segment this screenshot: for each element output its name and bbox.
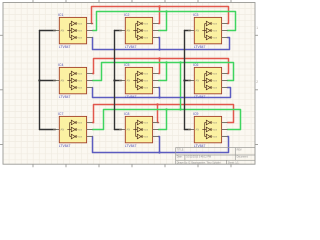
junction red row1	[158, 5, 160, 7]
optocoupler IC1	[53, 13, 93, 49]
wire green net row3 bus (mid pins of IC7-IC9)	[93, 110, 241, 130]
svg-text:1: 1	[256, 26, 258, 30]
optocoupler IC6	[188, 63, 228, 99]
wire blue net row1 riser from IC2 bottom pin	[159, 38, 160, 50]
wire red net row3 drop to IC8 top pin	[158, 105, 159, 123]
junction blue row2	[158, 96, 160, 98]
wire green link row2 to row3	[180, 63, 182, 110]
svg-text:AN: AN	[61, 128, 65, 132]
junction input feed column 1 row2	[38, 79, 40, 81]
svg-text:AN: AN	[127, 29, 131, 33]
optocoupler IC3	[188, 13, 228, 49]
optocoupler IC2	[119, 13, 159, 49]
wire red net row1 drop to IC2 top pin	[159, 7, 160, 24]
wire green net row1 bus (mid pins of IC1-IC3)	[93, 12, 236, 31]
svg-text:IC7: IC7	[58, 112, 63, 116]
wire green net row2 drop to IC5 mid pin	[159, 63, 167, 81]
svg-text:AN: AN	[61, 29, 65, 33]
junction red row3	[156, 103, 158, 105]
svg-text:LTV847: LTV847	[194, 45, 206, 49]
junction green row1	[165, 10, 167, 12]
svg-text:IC5: IC5	[124, 63, 129, 67]
wire input feed column 2	[115, 30, 122, 32]
wire red net row3 bus (tops of IC7-IC9)	[94, 105, 234, 123]
wire input feed column 1	[40, 30, 56, 32]
junction blue row3	[158, 151, 160, 153]
wire blue net row1 bus (bottom pins of IC1-IC3)	[93, 38, 230, 50]
svg-text:Date:: Date:	[177, 156, 183, 159]
wire green net row1 drop to IC2 mid pin	[159, 12, 167, 31]
wire red net row1 bus (tops of IC1-IC3)	[92, 7, 229, 24]
junction green row3	[165, 108, 167, 110]
junction red row2	[158, 57, 160, 59]
junction input feed column 3 row2	[183, 79, 185, 81]
junction green link top	[179, 61, 181, 63]
svg-text:AN: AN	[127, 79, 131, 83]
title block	[176, 148, 255, 165]
svg-text:IC9: IC9	[193, 112, 198, 116]
svg-text:LTV847: LTV847	[59, 45, 71, 49]
wire blue net row2 bus (bottom pins of IC4-IC6)	[93, 88, 231, 98]
svg-text:LTV847: LTV847	[59, 95, 71, 99]
svg-text:IC2: IC2	[124, 13, 129, 17]
svg-text:LTV847: LTV847	[59, 144, 71, 148]
svg-text:2: 2	[256, 80, 258, 84]
svg-text:TITLE:: TITLE:	[177, 149, 185, 152]
svg-text:Document:: Document:	[237, 156, 249, 159]
svg-text:Sheet: 1/1: Sheet: 1/1	[228, 161, 240, 164]
wire red net row2 bus (tops of IC4-IC6)	[94, 59, 229, 74]
svg-text:Drawn By: E. Baumgartner, Timo: Drawn By: E. Baumgartner, Timo Schäfer	[177, 161, 221, 164]
svg-text:IC3: IC3	[193, 13, 198, 17]
svg-text:LTV847: LTV847	[125, 45, 137, 49]
svg-text:AN: AN	[61, 79, 65, 83]
wire blue net row2 riser from IC5 bottom pin	[159, 88, 160, 98]
junction green link bottom	[179, 108, 181, 110]
junction input feed column 2 row2	[113, 79, 115, 81]
svg-text:REV:: REV:	[237, 149, 243, 152]
svg-text:AN: AN	[196, 29, 200, 33]
wire red stub IC7 top pin	[93, 122, 94, 124]
svg-text:IC6: IC6	[193, 63, 198, 67]
junction green row2	[165, 61, 167, 63]
svg-text:LTV847: LTV847	[125, 144, 137, 148]
optocoupler IC9	[188, 112, 228, 148]
wire blue net row3 bus (bottom pins of IC7-IC9)	[93, 137, 229, 153]
svg-text:IC1: IC1	[58, 13, 63, 17]
svg-text:AN: AN	[196, 128, 200, 132]
optocoupler IC4	[53, 63, 93, 99]
optocoupler IC7	[53, 112, 93, 148]
svg-text:AN: AN	[196, 79, 200, 83]
svg-text:IC8: IC8	[124, 112, 129, 116]
wire red stub IC1 top pin	[92, 23, 93, 25]
optocoupler IC8	[119, 112, 159, 148]
svg-text:LTV847: LTV847	[125, 95, 137, 99]
wire green net row3 drop to IC8 mid pin	[159, 110, 167, 130]
wire blue net row3 riser from IC8 bottom pin	[159, 137, 160, 153]
svg-text:AN: AN	[127, 128, 131, 132]
wire input feed column 3	[185, 30, 191, 32]
wire red net row2 drop to IC5 top pin	[159, 59, 160, 74]
svg-text:LTV847: LTV847	[194, 95, 206, 99]
svg-text:IC4: IC4	[58, 63, 63, 67]
wire green net row2 bus (mid pins of IC4-IC6)	[93, 63, 234, 81]
wire red stub IC4 top pin	[93, 73, 94, 75]
optocoupler IC5	[119, 63, 159, 99]
svg-text:10/11/2013 3:48:12 PM: 10/11/2013 3:48:12 PM	[186, 156, 211, 159]
junction blue row1	[158, 48, 160, 50]
